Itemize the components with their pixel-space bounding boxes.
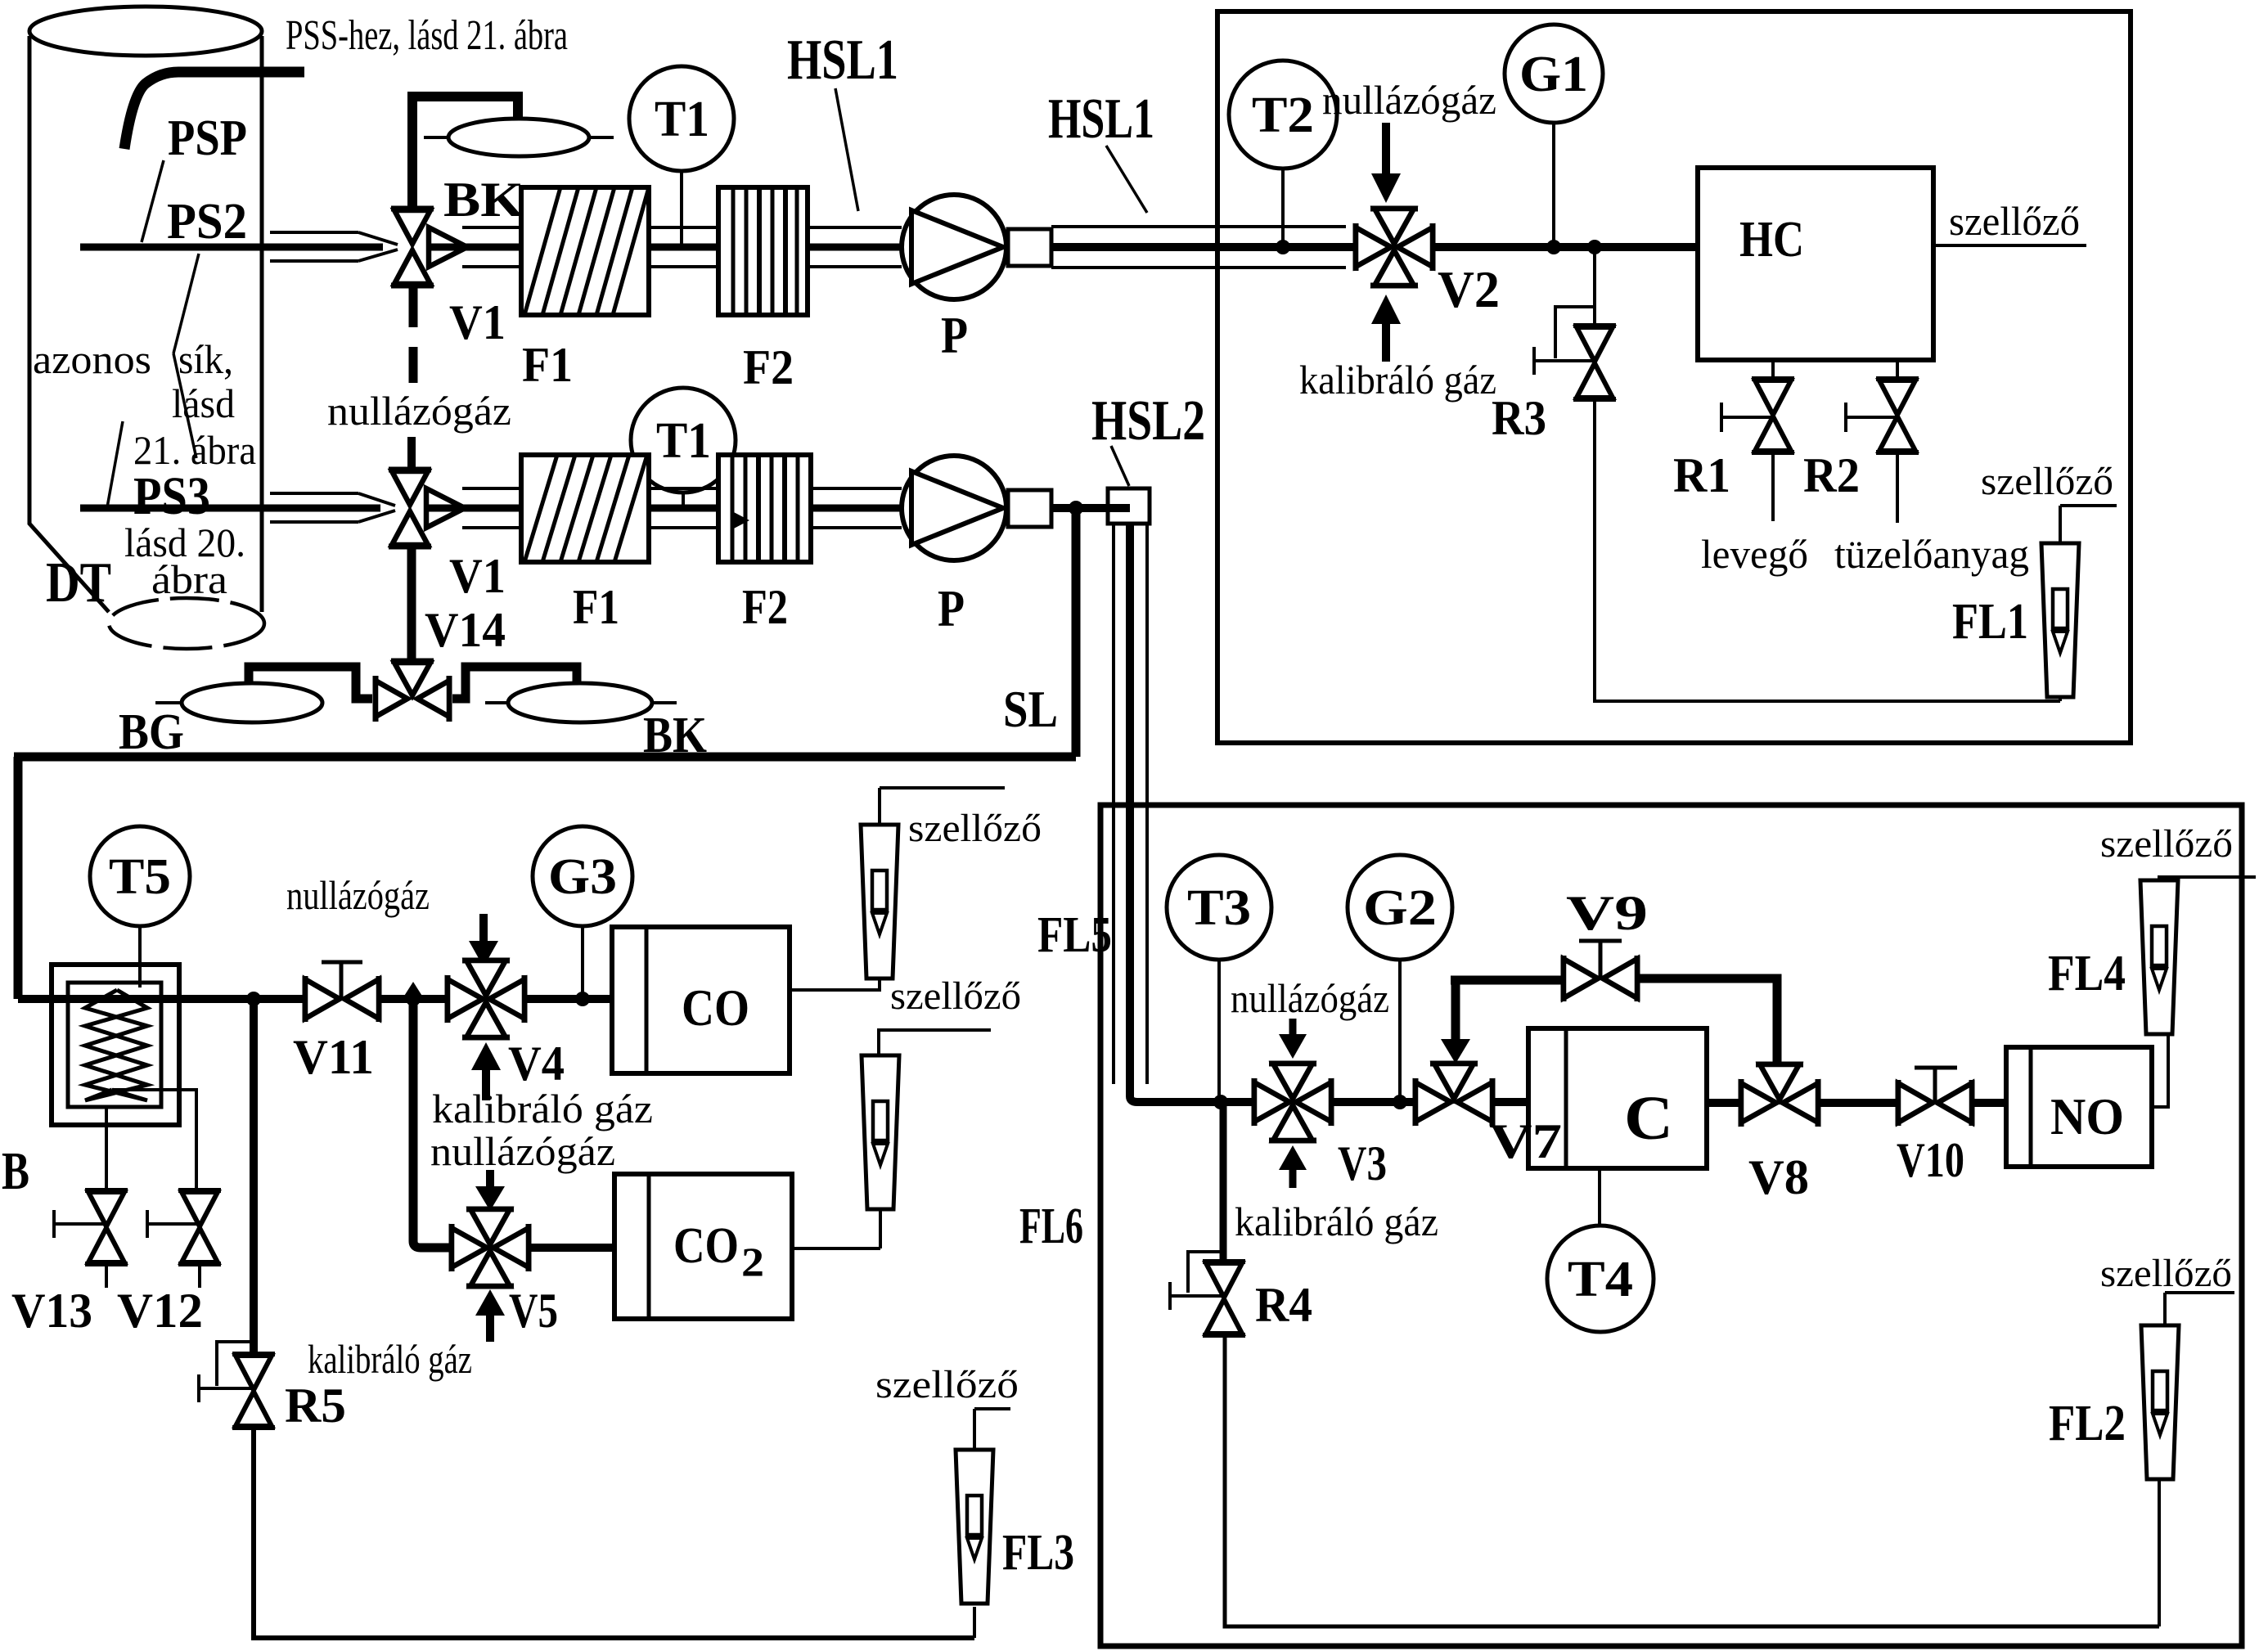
main line V10 to NO [1972, 1099, 2006, 1107]
svg-text:PSS-hez, lásd 21. ábra: PSS-hez, lásd 21. ábra [286, 12, 568, 59]
main line V5 to CO2 [529, 1244, 614, 1252]
svg-text:FL1: FL1 [1952, 594, 2028, 650]
svg-text:CO: CO [682, 978, 749, 1037]
svg-text:PS3: PS3 [133, 466, 210, 526]
svg-text:R3: R3 [1492, 391, 1546, 445]
svg-text:V7: V7 [1489, 1114, 1562, 1168]
svg-text:sík,: sík, [178, 336, 233, 382]
valve V11 [305, 976, 379, 1022]
pipe PS3 sampling line [80, 505, 380, 512]
svg-text:PS2: PS2 [167, 194, 247, 250]
main line V3 to V7 [1332, 1098, 1417, 1106]
stack cylinder DT right wall [260, 36, 264, 612]
pipe PS2 sampling line [80, 244, 383, 251]
svg-text:nullázógáz: nullázógáz [1322, 77, 1496, 123]
bulb BG ellipse [182, 683, 322, 722]
wire HC vent [1933, 244, 2086, 247]
junction G2 [1393, 1095, 1407, 1109]
regulator R4 loop [1188, 1252, 1223, 1293]
svg-text:V12: V12 [117, 1284, 203, 1338]
sensor T4 circle [1547, 1226, 1654, 1332]
svg-text:R4: R4 [1255, 1278, 1312, 1332]
analyzer CO2 box [614, 1174, 792, 1319]
regulator R1 stub [1771, 360, 1775, 380]
svg-text:BK: BK [443, 173, 524, 227]
valve V1 upper (PS2) [391, 209, 467, 286]
junction R5 branch [246, 992, 261, 1006]
svg-text:HSL1: HSL1 [787, 29, 898, 92]
wire G1 tap [1552, 123, 1555, 247]
svg-text:V8: V8 [1748, 1150, 1809, 1204]
pipe F1-F2 lower [649, 487, 718, 490]
svg-text:DT: DT [46, 551, 111, 614]
svg-text:PSP: PSP [168, 110, 247, 166]
leader HSL1 second [1106, 146, 1147, 213]
svg-text:FL2: FL2 [2049, 1396, 2126, 1451]
wire G3 tap [581, 926, 584, 999]
svg-text:nullázógáz: nullázógáz [430, 1128, 615, 1174]
wire G2 tap [1398, 960, 1402, 1102]
regulator R2 valve [1876, 379, 1919, 452]
main line V8 to V10 [1818, 1099, 1903, 1107]
pipe P to cabinet (HSL1) [1051, 225, 1346, 228]
flowmeter FL6 [862, 1055, 899, 1209]
junction T3/R4 [1213, 1095, 1228, 1109]
wire left riser down to B [14, 757, 23, 999]
drain stubs below B [105, 1107, 108, 1192]
svg-text:B: B [2, 1141, 29, 1201]
svg-text:V13: V13 [11, 1284, 92, 1338]
svg-text:V10: V10 [1897, 1133, 1964, 1187]
leader line PSP [142, 160, 164, 242]
arrow nullázógáz into V3 [1289, 1019, 1297, 1036]
svg-text:T4: T4 [1568, 1252, 1633, 1307]
wire R3 down to FL1 return [1595, 399, 2060, 701]
filter F1 lower hatched [521, 455, 649, 562]
flowmeter FL4 [2140, 880, 2178, 1034]
gas cooler B inner box [68, 983, 161, 1107]
svg-text:V1: V1 [449, 295, 506, 349]
sensor T3 circle [1167, 855, 1271, 960]
valve V2 [1356, 209, 1433, 286]
svg-text:lásd: lásd [172, 380, 235, 426]
filter F2 lower striped [718, 455, 811, 562]
wire V14 right to bulb BK lower [452, 667, 577, 699]
leader HSL1 first [835, 88, 858, 211]
valve V8 [1741, 1064, 1818, 1127]
stack cylinder DT bottom ellipse [109, 598, 264, 649]
main line V4 to CO [524, 995, 612, 1003]
gauge G3 circle [533, 826, 632, 926]
sensor T1 upper circle [629, 66, 734, 171]
flowmeter FL5 [861, 825, 898, 978]
wire FL6 vent [879, 1030, 991, 1055]
svg-text:F1: F1 [573, 580, 619, 634]
svg-text:F2: F2 [743, 340, 794, 394]
main line V7 to C [1492, 1098, 1528, 1106]
regulator R4 stem [1220, 1102, 1227, 1270]
flowmeter FL2 [2165, 1291, 2234, 1294]
wire R5 down and right to FL3 [254, 1428, 974, 1638]
valve V5 [452, 1209, 529, 1286]
svg-text:V1: V1 [449, 549, 506, 603]
regulator R5 stem [250, 999, 258, 1358]
leader line 21 abra [107, 421, 123, 507]
bypass wire V9 to V8 [1637, 978, 1777, 1064]
gauge G2 circle [1348, 855, 1452, 960]
HSL2 descending pipe walls [1112, 524, 1115, 1084]
svg-text:V2: V2 [1438, 260, 1500, 318]
svg-text:SL: SL [1003, 680, 1058, 738]
valve V13 [85, 1190, 128, 1264]
junction G3 [575, 992, 590, 1006]
svg-text:nullázógáz: nullázógáz [286, 872, 430, 918]
svg-text:F2: F2 [742, 580, 788, 634]
nullázógáz dashed feed to V1 valves [409, 286, 418, 327]
wire NO outlet to FL4 [2152, 1034, 2168, 1107]
sensor T1 lower circle [631, 388, 736, 493]
valve V12 [178, 1190, 221, 1264]
valve V7 [1415, 1064, 1492, 1126]
svg-text:ábra: ábra [151, 556, 227, 602]
junction G1 [1546, 240, 1561, 254]
svg-text:kalibráló gáz: kalibráló gáz [432, 1086, 653, 1131]
regulator R4 valve [1203, 1262, 1245, 1335]
sensor T4 stem [1598, 1168, 1601, 1226]
svg-text:V4: V4 [508, 1037, 565, 1091]
junction R3 tee [1587, 240, 1602, 254]
svg-text:nullázógáz: nullázógáz [1231, 975, 1389, 1021]
arrow nullázógáz into V1 lower [407, 437, 416, 473]
pump P lower outlet connector [1008, 490, 1051, 527]
pipe F2-P lower [811, 487, 902, 490]
svg-text:nullázógáz: nullázógáz [327, 388, 511, 434]
svg-text:HSL1: HSL1 [1048, 88, 1154, 151]
sensor T2 circle [1229, 61, 1337, 169]
analyzer NO box [2006, 1047, 2152, 1167]
svg-text:R2: R2 [1803, 448, 1860, 502]
junction V5 branch [406, 992, 421, 1006]
svg-text:szellőző: szellőző [2100, 1252, 2232, 1295]
regulator R3 stem [1593, 247, 1596, 327]
arrowhead at V5 branch tee [402, 982, 425, 1000]
sensor T5 circle [90, 826, 190, 926]
valve V10 [1898, 1080, 1972, 1126]
arrow nullázógáz into V4 [479, 914, 488, 942]
leader HSL2 [1111, 446, 1129, 486]
wire V14 left to bulb BG [249, 667, 372, 699]
svg-text:levegő: levegő [1701, 531, 1808, 577]
bypass wire to V9 [1451, 976, 1564, 985]
svg-text:BG: BG [119, 704, 184, 760]
wire CO outlet to FL5 [790, 980, 880, 990]
svg-text:C: C [1624, 1084, 1673, 1153]
main line B to V11 [18, 995, 307, 1003]
filter F2 upper striped [718, 187, 808, 315]
flowmeter FL3 [973, 1607, 976, 1638]
svg-text:szellőző: szellőző [908, 807, 1042, 850]
wire V1 lower to V14 [407, 548, 416, 664]
gas cooler B coil zigzag [85, 990, 147, 1100]
valve V14 three-way [376, 661, 449, 722]
junction T2 [1276, 240, 1290, 254]
junction SL tee [1069, 501, 1083, 515]
cabinet 1 (upper analyzer box) [1217, 11, 2131, 743]
probe walls PS3 [270, 492, 358, 495]
arrow kalibráló gáz into V4 bottom [482, 1068, 490, 1100]
svg-text:G3: G3 [548, 849, 617, 905]
pump P upper outlet connector [1008, 229, 1051, 266]
svg-text:T1: T1 [655, 92, 709, 147]
arrow nullázógáz into V2 [1382, 123, 1390, 175]
svg-text:tüzelőanyag: tüzelőanyag [1834, 531, 2029, 577]
arrow kalibráló gáz into V2 bottom [1382, 322, 1390, 362]
main line V11 to V4 [379, 995, 449, 1003]
probe PSP thick bent line to PSS [124, 72, 304, 149]
wire T1 lower tap [682, 493, 685, 506]
svg-text:kalibráló gáz: kalibráló gáz [1299, 357, 1496, 403]
valve V1 lower (PS3) [389, 470, 465, 547]
regulator R1 valve [1752, 379, 1794, 452]
flow mark in F2 lower [731, 511, 749, 530]
leader line azonos sík lower [173, 353, 196, 458]
flowmeter FL1 [2060, 504, 2117, 507]
arrow kalibráló gáz into V3 bottom [1289, 1168, 1297, 1188]
regulator R3 valve [1573, 326, 1616, 399]
svg-text:V3: V3 [1338, 1136, 1387, 1190]
svg-text:szellőző: szellőző [1981, 460, 2113, 503]
bulb BK upper ellipse [448, 119, 589, 156]
stack cylinder DT top ellipse [29, 7, 262, 56]
leader line azonos sík upper [173, 254, 199, 353]
arrow nullázógáz into V5 [486, 1170, 494, 1188]
pipe F1-F2 upper [649, 226, 718, 229]
filter F1 upper hatched [521, 187, 649, 315]
svg-text:R5: R5 [285, 1379, 346, 1433]
analyzer CO box [612, 927, 790, 1073]
bypass arrow into V7 top [1451, 980, 1460, 1041]
svg-text:T1: T1 [656, 413, 711, 469]
svg-text:FL3: FL3 [1002, 1525, 1074, 1581]
wire T1 upper tap [680, 171, 683, 244]
valve V3 [1254, 1064, 1331, 1140]
wire T3 tap [1217, 960, 1221, 1102]
svg-text:P: P [938, 579, 965, 637]
wire C outlet to V8 [1707, 1099, 1743, 1107]
HSL2 descending thick line [1130, 524, 1254, 1102]
pipe P lower outlet to HSL2 elbow [1051, 504, 1130, 512]
regulator R2 stub [1896, 360, 1899, 380]
svg-text:szellőző: szellőző [875, 1363, 1019, 1406]
svg-text:szellőző: szellőző [2100, 822, 2233, 866]
svg-text:V5: V5 [509, 1284, 558, 1338]
svg-text:2: 2 [741, 1239, 764, 1284]
svg-text:G1: G1 [1519, 47, 1588, 102]
pipe F2-P upper [808, 226, 902, 229]
valve V9 [1564, 956, 1637, 1001]
regulator R3 loop [1555, 307, 1595, 358]
svg-text:FL4: FL4 [2048, 946, 2126, 1001]
stack cylinder DT left wall [29, 36, 109, 612]
analyzer C box [1528, 1028, 1707, 1168]
wire SL horizontal to left edge [14, 753, 1076, 762]
wire T2 tap [1281, 169, 1285, 247]
pump P upper [902, 195, 1006, 299]
svg-text:kalibráló gáz: kalibráló gáz [308, 1336, 472, 1382]
gas cooler B outer box [52, 965, 179, 1125]
branch wire to V5 [413, 999, 452, 1248]
svg-text:V14: V14 [425, 603, 506, 657]
svg-text:F1: F1 [522, 338, 573, 392]
main line cabinet1 to V2 [1358, 243, 1359, 251]
svg-text:HC: HC [1739, 212, 1804, 268]
main line V2 to HC [1433, 243, 1698, 251]
svg-text:R1: R1 [1673, 448, 1730, 502]
wire T5 tap into B [138, 926, 142, 987]
svg-text:NO: NO [2050, 1087, 2124, 1145]
svg-text:T3: T3 [1187, 880, 1251, 936]
analyzer HC box [1698, 168, 1933, 360]
probe walls PS2 [270, 231, 358, 234]
svg-text:azonos: azonos [33, 336, 151, 382]
svg-text:szellőző: szellőző [1949, 198, 2080, 244]
svg-text:CO: CO [673, 1218, 739, 1274]
svg-text:G2: G2 [1363, 880, 1437, 936]
bulb BK lower ellipse [508, 683, 652, 722]
svg-text:szellőző: szellőző [890, 974, 1021, 1018]
svg-text:HSL2: HSL2 [1091, 389, 1205, 452]
HSL2 elbow connector [1108, 488, 1150, 524]
regulator R5 valve [232, 1354, 275, 1428]
svg-text:P: P [941, 306, 968, 364]
wire loop V1 to bulb BK [412, 97, 518, 206]
regulator R5 loop [217, 1342, 254, 1386]
cabinet 2 (lower analyzer box) [1100, 805, 2242, 1646]
svg-text:T5: T5 [109, 849, 171, 905]
wire R4 down to FL2 return [1225, 1335, 2159, 1626]
pipe V1-F1 upper [462, 226, 521, 229]
svg-text:V11: V11 [293, 1030, 374, 1084]
gauge G1 circle [1505, 25, 1603, 123]
svg-text:T2: T2 [1252, 88, 1314, 143]
pump P lower [902, 456, 1006, 560]
svg-text:kalibráló gáz: kalibráló gáz [1235, 1199, 1438, 1244]
svg-text:FL6: FL6 [1019, 1199, 1083, 1254]
arrow kalibráló gáz into V5 bottom [486, 1314, 494, 1342]
svg-text:V9: V9 [1566, 886, 1648, 940]
wire SL vertical [1072, 508, 1081, 757]
pipe V1-F1 lower [462, 487, 521, 490]
valve V4 [448, 960, 524, 1037]
